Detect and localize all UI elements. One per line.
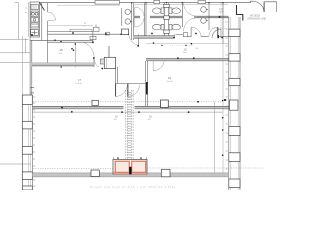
fixture row 1 marks: [32, 6, 37, 8]
toilet NW tank: [161, 8, 164, 14]
left pilaster 4: [22, 172, 32, 180]
top wall inner line: [57, 4, 120, 6]
door1 arc: [191, 27, 201, 37]
bottom overhead dotted line left: [33, 167, 113, 169]
corridor south band left: [32, 63, 94, 66]
room partition line right area: [214, 102, 216, 173]
closet inner line: [106, 57, 108, 68]
dots on inner right line: [222, 100, 224, 102]
wall to door1: [188, 36, 191, 38]
lower mid dots: [61, 107, 63, 109]
closet west double line: [28, 2, 30, 37]
lobby door arc 2: [128, 85, 140, 97]
vestibule pink room left: [115, 161, 129, 173]
corridor dots: [93, 57, 95, 59]
room18 door arc: [84, 42, 95, 57]
left small bracket line: [25, 39, 27, 54]
vestibule outer rect: [113, 159, 147, 174]
roof vent rect 2: [154, 0, 160, 3]
bathroom west wall: [121, 8, 123, 26]
bathroom mid wall: [134, 16, 229, 18]
svg-text:2nd: 2nd: [83, 26, 86, 28]
wall to right wall: [219, 36, 229, 38]
bath block bottom wall left: [48, 32, 122, 35]
stall door arc C: [184, 3, 197, 16]
fixture row 2 circles: [32, 12, 35, 15]
door arc room19: [153, 61, 164, 71]
svg-text:2nd: 2nd: [59, 53, 62, 55]
toilet SW tank: [161, 24, 164, 30]
sink circle 1 right: [201, 7, 207, 13]
left pilaster 3: [22, 147, 32, 155]
fixture row 4 box: [31, 23, 39, 28]
vestibule room outlines: [115, 161, 129, 173]
niche box: [183, 33, 188, 37]
sink spouts: [206, 10, 208, 21]
top right stoop box: [265, 2, 277, 12]
hall door arc: [94, 59, 99, 67]
svg-text:2nd: 2nd: [183, 52, 186, 54]
svg-text:CLR: CLR: [219, 12, 224, 14]
right pilaster 7: [229, 179, 240, 188]
dots on south wall: [173, 37, 175, 39]
lobby door leaf 1: [115, 84, 117, 97]
lower mid line: [32, 111, 222, 113]
lav faucet 2: [130, 21, 132, 23]
left pilaster 5: [22, 186, 32, 190]
sink wall: [208, 3, 210, 30]
door2 jamb chunk: [217, 35, 219, 38]
P2 pilaster 2: [164, 16, 169, 20]
cabinet box 1: [90, 37, 96, 40]
window box bottom 1: [91, 170, 99, 177]
toilet SW bowl: [153, 24, 161, 30]
wall tick marks upper: [31, 88, 35, 93]
corridor wall line right: [146, 58, 229, 61]
cabinet box 2: [105, 32, 109, 35]
top right door arc: [253, 2, 264, 13]
stall door arc D: [183, 18, 196, 32]
dot near hall: [71, 48, 73, 50]
fixture row 1 box: [31, 5, 39, 10]
break diagonal: [40, 3, 45, 11]
left tick 1: [0, 52, 30, 54]
stair shaft rungs: [127, 93, 131, 158]
lavatory circle 2: [125, 19, 130, 24]
closet box at corridor: [104, 57, 115, 68]
dots along top wall: [131, 2, 132, 3]
left tick 3: [0, 163, 31, 165]
left wall band inner edge: [31, 95, 33, 190]
dim dotted row: [170, 45, 194, 47]
deck edge bottom tick: [0, 39, 29, 41]
partition P3: [181, 3, 183, 27]
toilet NE bowl: [172, 8, 180, 14]
door2 leaf dark: [217, 27, 219, 37]
stall door arc A: [135, 7, 144, 16]
lavatory circle 1: [125, 9, 130, 14]
plumbing fixture box: [94, 27, 100, 31]
corridor dots right: [177, 57, 179, 59]
fixture row 2 box: [31, 11, 39, 17]
left upper wall double line: [30, 37, 32, 95]
door2 arc: [209, 27, 218, 36]
bottom gray wall band: [32, 173, 229, 177]
dots on room18 wall: [54, 39, 56, 41]
right pilaster 6: [229, 153, 240, 162]
dim dotted row right: [212, 28, 228, 30]
right corridor corner vertical: [146, 61, 148, 106]
inner right boundary line: [222, 44, 224, 174]
toilet SE bowl: [172, 24, 180, 30]
right wall tick column: [226, 22, 228, 169]
column box on mid wall small: [92, 100, 98, 105]
hall door leaf: [93, 58, 95, 67]
door arc bottom bath: [212, 29, 221, 38]
stair lobby north wall: [116, 83, 146, 85]
vestibule pink room right: [132, 161, 146, 173]
left pilaster 2: [22, 121, 32, 129]
right pilaster 4 junction: [230, 100, 239, 110]
vanity counter along wall: [70, 29, 92, 31]
toilet NE tank: [169, 8, 172, 14]
svg-text:2nd: 2nd: [114, 119, 117, 121]
right pilaster 2: [229, 54, 240, 61]
band left part lines: [134, 36, 175, 39]
marks on face line: [153, 42, 155, 44]
vestibule pink bottom sill: [113, 172, 146, 175]
vestibule black door mark: [129, 167, 131, 175]
bath south gray band left part: [134, 36, 175, 39]
corner box column: [122, 29, 129, 35]
dots room18: [60, 41, 62, 43]
sink circle 2 right: [201, 18, 207, 24]
lav faucet 1: [130, 11, 132, 13]
bath door dots: [120, 34, 122, 36]
small dark marks at dotted line end: [224, 99, 226, 101]
closet corner dot: [101, 68, 103, 70]
stairhall east wall lower: [47, 40, 49, 66]
bath west partition upper: [145, 3, 146, 36]
utility closet block outline top-left: [30, 2, 39, 37]
center partition P2: [164, 3, 168, 36]
west wall line A: [42, 3, 48, 40]
upper-left deck edge vertical: [15, 3, 19, 40]
bath door leaf: [138, 34, 140, 45]
vestibule dim ticks: [113, 157, 146, 159]
right wall outer lines: [229, 17, 240, 190]
fixture tick: [95, 25, 97, 28]
mid wall gray band left: [32, 106, 123, 109]
svg-text:DRAINAGE LINE: DRAINAGE LINE: [248, 18, 267, 21]
mid wall line right: [135, 106, 229, 109]
corridor gray band right: [146, 58, 229, 61]
P2 pilaster 1: [164, 4, 169, 7]
mid dot on dotted line: [197, 101, 199, 103]
roof vent rect 1: [95, 1, 120, 5]
bottom wall bottom line: [32, 176, 229, 178]
bathroom partition wall P1: [132, 3, 134, 40]
toilet NW bowl: [153, 8, 161, 14]
toilet room divider dots: [72, 32, 74, 34]
left wall tick column: [33, 97, 35, 186]
roof vent rect 3: [198, 1, 206, 4]
landing box with cross: [31, 30, 39, 36]
door1 leaf: [190, 27, 192, 37]
bathroom east wall: [222, 3, 224, 44]
svg-text:2nd: 2nd: [148, 119, 151, 121]
left wall cavity lines: [28, 95, 30, 190]
top wall line: [40, 1, 254, 3]
stall door arc B: [135, 18, 144, 27]
stair door arc: [48, 12, 56, 21]
room18 north wall double: [30, 40, 93, 42]
column box on mid wall large: [161, 100, 169, 108]
wall between doors: [201, 36, 209, 38]
fixture row 3 circle: [33, 18, 36, 21]
bottom overhead dotted line right: [147, 167, 264, 169]
svg-text:2nd ofc: 2nd ofc: [76, 83, 83, 85]
left wall band outer: [21, 95, 23, 190]
fixture row 3 box: [31, 18, 39, 23]
right wall top corner chunk: [237, 5, 243, 21]
bathroom mid wall gray fill: [134, 16, 140, 17]
hall wall stub vertical: [108, 46, 109, 57]
wall below closet: [116, 67, 118, 84]
shelf line top room: [48, 25, 93, 27]
mid wall gray band right: [135, 106, 229, 109]
right pilaster 5: [229, 127, 240, 136]
left tick 2: [0, 61, 31, 63]
outer face line right half: [146, 42, 229, 44]
lobby door arc 1: [116, 85, 128, 97]
mid wall line left: [32, 106, 123, 109]
lobby door leaf 2: [127, 84, 129, 97]
bath door arc into hall: [129, 35, 139, 45]
toilet SE tank: [169, 24, 172, 30]
fixture row 4 marks: [32, 25, 38, 27]
partition room18/17: [74, 43, 76, 68]
right wall cavity lines: [231, 17, 239, 190]
window box bottom 2: [161, 169, 170, 177]
bottom wall top line: [32, 172, 229, 174]
right pilaster 1: [229, 29, 240, 36]
lobby east wall dark: [146, 82, 148, 94]
landing cross: [32, 30, 38, 35]
overhead dotted line mid: [33, 101, 223, 103]
small box left of closet: [100, 59, 104, 64]
left pilaster 1: [22, 95, 32, 105]
P2 pilaster 3: [164, 30, 169, 33]
bathroom east partition dotted: [220, 3, 222, 30]
wall jog vertical: [92, 32, 94, 43]
dot at closet bottom: [31, 34, 33, 36]
svg-text:2nd ofc: 2nd ofc: [167, 81, 174, 83]
svg-text:Project 2nd floor sc 3/16 =: Project 2nd floor sc 3/16 = 1'0" 2014 A1…: [90, 185, 176, 189]
band jog up: [174, 35, 183, 39]
right pilaster 3: [229, 78, 240, 85]
outer left boundary line: [22, 36, 24, 190]
stair shaft dashed rails: [126, 90, 134, 160]
